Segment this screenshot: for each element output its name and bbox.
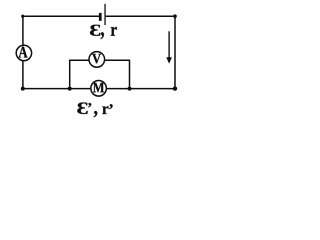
ammeter A — [16, 45, 31, 60]
wire top left segment — [23, 15, 99, 17]
wire right segment — [174, 16, 176, 88]
wire top right segment — [106, 15, 175, 17]
node junction dot right of motor branch — [128, 87, 132, 91]
voltmeter branch right vertical wire — [129, 60, 131, 89]
wire bottom left segment — [23, 88, 91, 90]
label motor back-EMF value — [77, 103, 112, 118]
node top-right junction dot — [173, 14, 177, 18]
voltmeter V — [89, 52, 105, 68]
motor M — [91, 81, 107, 97]
node bottom-right junction dot — [173, 86, 177, 90]
node bottom-left junction dot — [21, 87, 25, 91]
wire left lower segment — [22, 61, 24, 89]
voltmeter branch left vertical wire — [69, 60, 71, 89]
wire left upper segment — [22, 16, 24, 45]
node junction dot left of motor branch — [68, 87, 72, 91]
label battery EMF value — [90, 25, 117, 40]
current direction arrow — [166, 31, 172, 64]
voltmeter branch top right wire — [105, 59, 130, 61]
node top-left junction dot — [21, 15, 24, 18]
battery cell (EMF source) — [99, 4, 106, 25]
wire bottom right segment — [106, 88, 175, 90]
voltmeter branch top left wire — [70, 59, 89, 61]
